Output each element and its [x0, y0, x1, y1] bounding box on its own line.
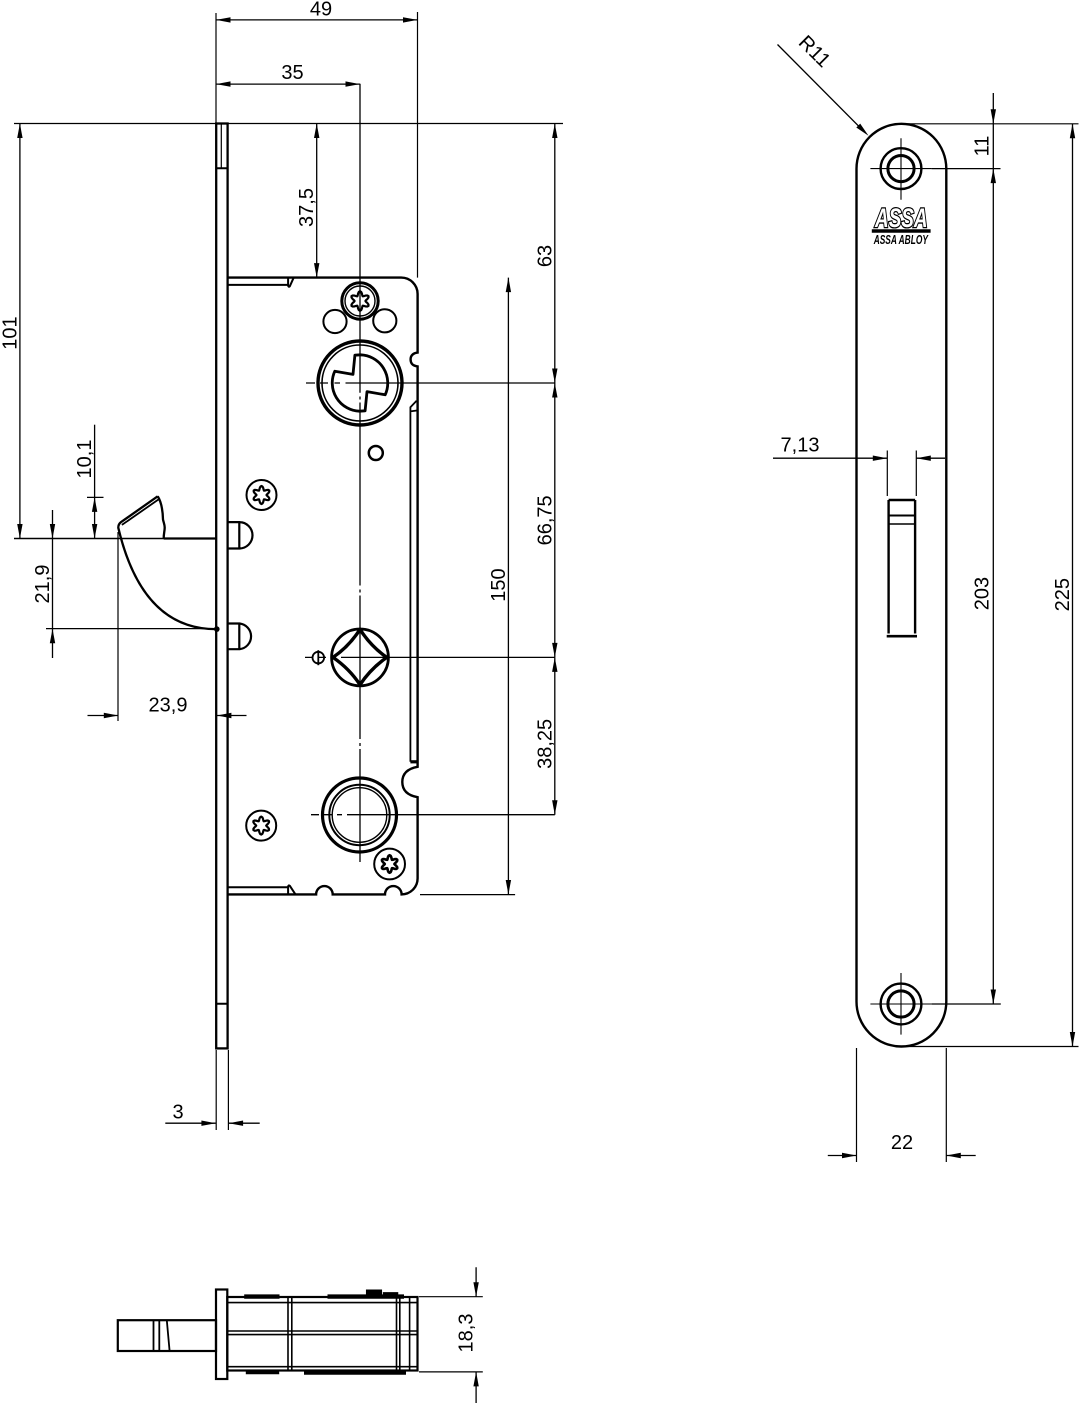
bottom screw hole [881, 984, 922, 1025]
svg-text:ASSA: ASSA [874, 203, 927, 233]
dimension 37,5 [316, 124, 318, 278]
bottom view: hook bolt internal edges [154, 1320, 170, 1351]
extension line hook pivot level [46, 628, 214, 630]
ASSA logo underline [872, 229, 931, 232]
bottom view: hook bolt protruding [118, 1320, 216, 1351]
dimension 10,1 [94, 425, 96, 539]
svg-text:35: 35 [281, 62, 303, 84]
extension line plate bottom [902, 1046, 1079, 1048]
lock case inner bottom edge and tab [228, 885, 295, 894]
extension line faceplate front [215, 13, 217, 124]
extension tick hook tip level [87, 496, 104, 498]
faceplate segment joints [216, 168, 227, 1004]
small hole left of top screw [323, 310, 346, 333]
vertical centerline of lock [359, 84, 361, 862]
ASSA logo [874, 203, 927, 233]
bottom view extension lines for 18,3 [419, 1297, 483, 1372]
deadbolt horizontal centerline [311, 814, 555, 816]
extension line plate top [901, 123, 1079, 125]
svg-text:7,13: 7,13 [781, 434, 820, 456]
dimension 21,9 [52, 510, 54, 658]
faceplate top screw-hole hidden edge [220, 125, 222, 168]
lower-right small torx screw [374, 849, 405, 880]
R11 leader line [778, 45, 864, 131]
dimension 11 [991, 109, 996, 124]
bottom view: lock case outline [227, 1297, 417, 1371]
small pin hole below cylinder [369, 446, 383, 460]
svg-text:66,75: 66,75 [534, 495, 556, 545]
extension line hook front [117, 532, 119, 721]
auxiliary bolt guide bar [410, 401, 417, 762]
dimension 3 [165, 1122, 259, 1124]
small hole right of top screw [373, 309, 396, 332]
svg-text:18,3: 18,3 [456, 1314, 478, 1353]
bottom view: faceplate end bar [216, 1290, 227, 1380]
svg-text:63: 63 [534, 245, 556, 267]
lock case inner top edge and tab [228, 278, 294, 287]
svg-text:3: 3 [172, 1101, 183, 1123]
svg-text:11: 11 [972, 136, 994, 157]
upper-left torx screw [247, 480, 277, 510]
bottom view: case internal horizontal edges [227, 1303, 417, 1367]
slotted screw left of follower [313, 652, 325, 664]
bottom view: case internal vertical edges [288, 1297, 410, 1371]
cylinder horizontal centerline [306, 382, 555, 384]
hook pivot dot on faceplate [214, 626, 220, 632]
deadbolt hole rings [323, 778, 397, 852]
dimension 18,3 [475, 1267, 477, 1403]
dimension 203 [991, 990, 996, 1005]
dimension 66,75 [554, 383, 556, 657]
svg-text:22: 22 [891, 1132, 913, 1154]
svg-text:203: 203 [972, 577, 994, 610]
dimension 11 and 203 shared line [992, 93, 994, 1004]
dimension 23,9 [88, 715, 247, 717]
bottom view: thick top edge segments [244, 1294, 404, 1298]
faceplate (forend) side view [216, 124, 227, 1049]
lower-left torx screw [246, 811, 276, 841]
svg-text:101: 101 [0, 316, 21, 349]
latch tab upper (D shape) [228, 522, 253, 548]
extension line bottom screw center [932, 1003, 1001, 1005]
faceplate front view outline [857, 124, 947, 1047]
svg-text:38,25: 38,25 [534, 719, 556, 769]
svg-text:10,1: 10,1 [74, 440, 96, 479]
dimension 7,13 [773, 457, 945, 459]
extension lines plate width [857, 1048, 947, 1162]
svg-text:ASSA ABLOY: ASSA ABLOY [873, 233, 929, 247]
extension lines latch slot width [887, 451, 916, 497]
bottom view: thick bottom edge segments [246, 1370, 279, 1374]
hook bolt bottom edge [164, 537, 217, 539]
svg-text:23,9: 23,9 [149, 695, 188, 717]
spindle follower circle [332, 629, 389, 686]
extension line case bottom [420, 894, 515, 896]
svg-text:225: 225 [1052, 578, 1074, 611]
dimension 35 [216, 83, 360, 85]
dimension 63 [554, 124, 556, 384]
top fixing screw (torx) [342, 283, 378, 319]
spindle follower square [333, 629, 387, 685]
extension line top of faceplate [14, 123, 563, 125]
extension line case back [417, 12, 419, 278]
dimension 101 [19, 124, 21, 539]
dimension 225 [1072, 124, 1074, 1047]
ASSA ABLOY small text [873, 233, 929, 247]
svg-text:21,9: 21,9 [32, 565, 54, 604]
latch tab lower (D shape) [228, 624, 251, 650]
cylinder hole outer rings [318, 341, 402, 425]
extension line top screw center [932, 168, 1001, 170]
dimension 150 [507, 278, 509, 895]
top screw crosshair [870, 138, 931, 200]
hook bolt chamfer line [122, 499, 159, 525]
dimension 22 [828, 1155, 976, 1157]
bottom view: top raised tabs [367, 1290, 382, 1297]
dimension 49 [216, 19, 418, 21]
top screw hole [881, 148, 922, 189]
hook bolt outline [118, 496, 216, 629]
extension lines faceplate thickness [216, 1050, 228, 1130]
svg-text:37,5: 37,5 [296, 188, 318, 227]
dimension 38,25 [554, 657, 556, 814]
latch bolt opening [889, 500, 916, 634]
svg-text:150: 150 [488, 568, 510, 601]
follower horizontal centerline [305, 656, 555, 658]
bottom screw crosshair [870, 973, 931, 1035]
cylinder profile [332, 355, 387, 411]
svg-text:49: 49 [310, 0, 332, 20]
lock case outline [228, 278, 418, 895]
extension line hook bottom level [14, 538, 217, 540]
